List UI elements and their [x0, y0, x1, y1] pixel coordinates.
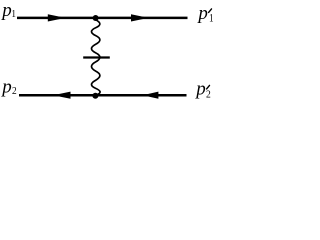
svg-text:2: 2	[206, 88, 211, 100]
arrow on top-left segment (points right)	[48, 14, 66, 21]
arrow on top-right segment (points right)	[131, 14, 149, 21]
arrow on bottom-left segment (points left)	[53, 92, 71, 99]
svg-text:1: 1	[209, 12, 214, 24]
svg-text:1: 1	[11, 8, 16, 20]
photon propagator (vertical wavy line)	[92, 20, 101, 95]
svg-text:p: p	[196, 3, 208, 24]
arrow on bottom-right segment (points left)	[143, 92, 159, 99]
vertex dot top	[93, 15, 99, 21]
wire: bottom fermion line p2' -> p2	[19, 94, 187, 97]
svg-text:2: 2	[12, 86, 17, 97]
wire: top fermion line p1 -> p1'	[17, 17, 188, 20]
vertex dot bottom	[92, 93, 98, 99]
cut bar across photon	[83, 56, 110, 58]
svg-text:p: p	[0, 76, 12, 97]
svg-text:p: p	[194, 79, 206, 100]
svg-text:p: p	[0, 0, 12, 21]
